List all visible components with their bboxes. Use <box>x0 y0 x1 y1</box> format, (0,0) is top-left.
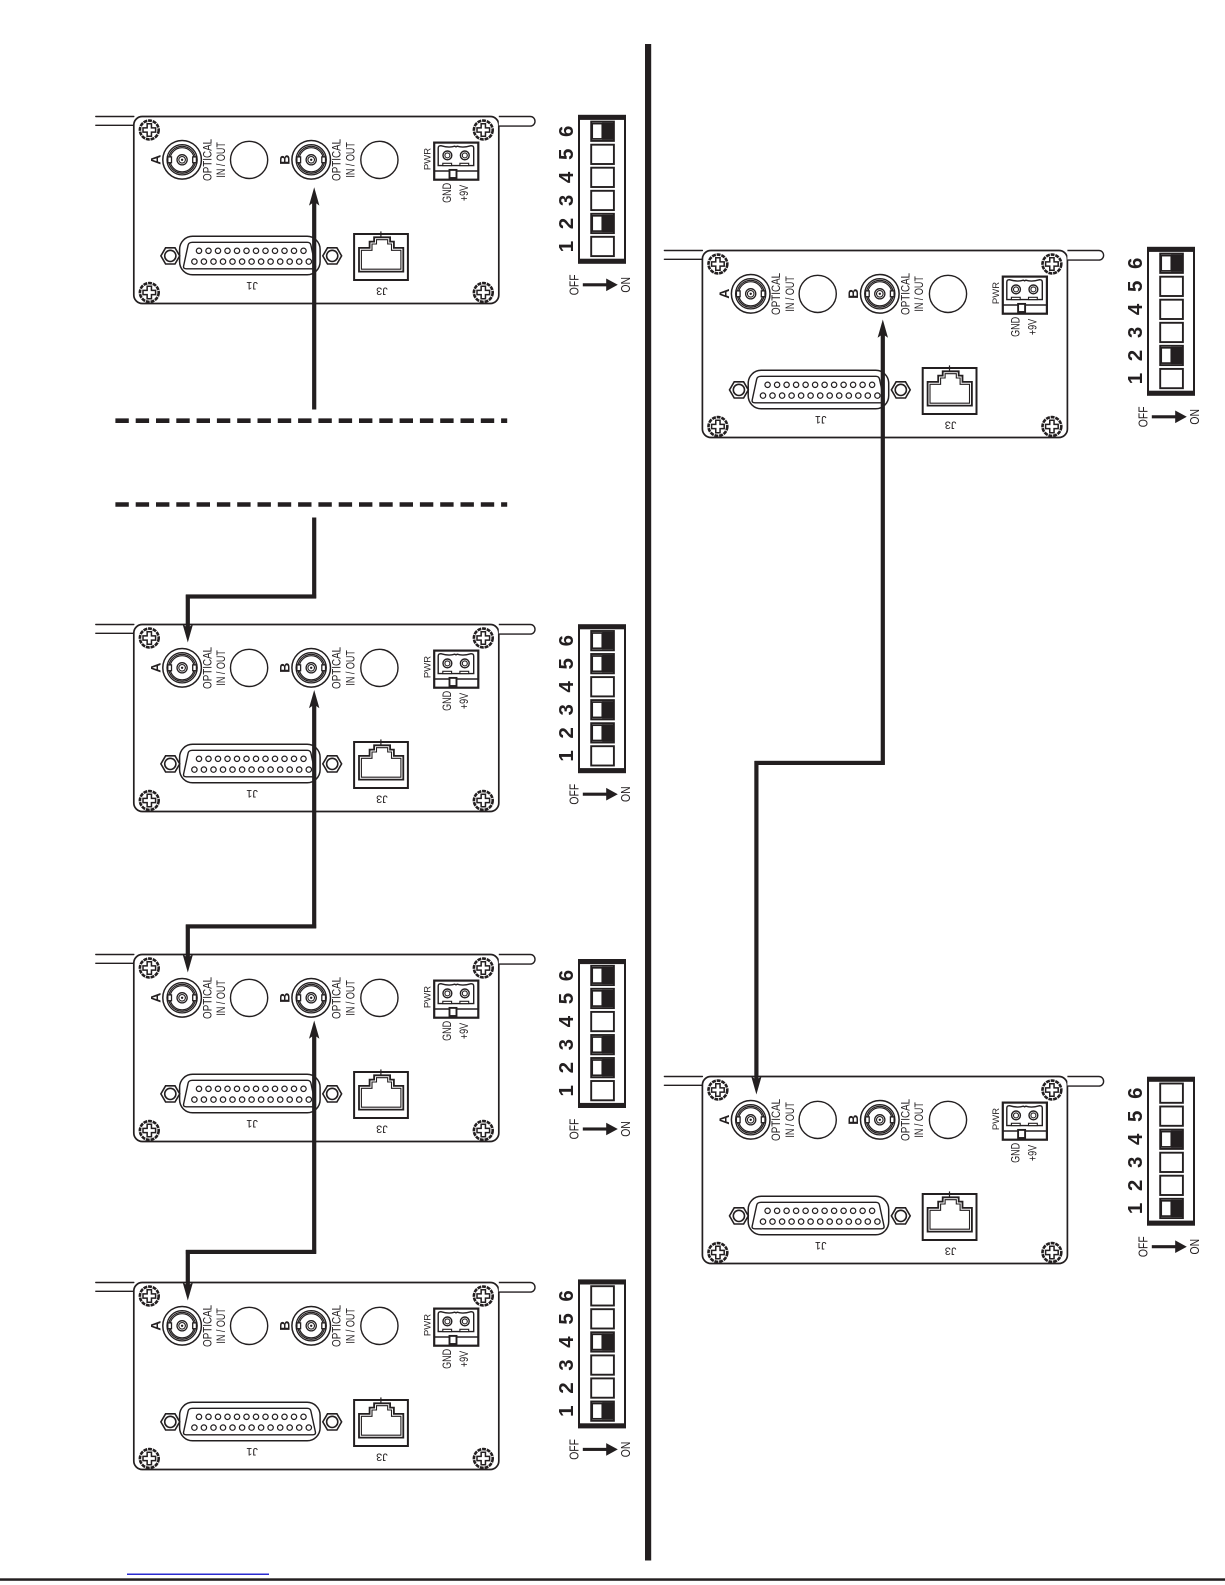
rear panel unit 6 faceplate <box>702 1077 1067 1264</box>
unit 1 DIP switch label 1 <box>555 241 578 252</box>
rear panel unit 1 faceplate <box>134 117 499 304</box>
rear panel unit 2 faceplate <box>134 625 499 812</box>
unit 4 top-right panel screw <box>474 1287 493 1306</box>
svg-text:IN / OUT: IN / OUT <box>784 1102 798 1138</box>
svg-text:J1: J1 <box>246 787 258 799</box>
svg-text:1: 1 <box>555 241 578 252</box>
unit 5 J1 left hex nut <box>730 382 749 398</box>
unit 1 OFF-to-ON arrow <box>583 279 618 292</box>
svg-text:6: 6 <box>555 970 578 981</box>
svg-text:1: 1 <box>555 1405 578 1416</box>
svg-text:2: 2 <box>1124 1180 1147 1191</box>
svg-text:OPTICAL: OPTICAL <box>770 273 783 315</box>
unit 3 DIP label ON <box>619 1121 633 1137</box>
unit 6 blank hole left <box>799 1101 836 1138</box>
svg-text:4: 4 <box>1124 1133 1147 1145</box>
svg-text:5: 5 <box>555 658 578 669</box>
unit 1 bottom-left panel screw <box>140 283 159 302</box>
unit 2 DB25 connector J1 <box>180 744 321 783</box>
cable unit6-A to unit5-B arrowhead into B <box>878 320 888 338</box>
unit 4 DIP switch block body <box>578 1280 626 1428</box>
unit 6 DIP switch label 1 <box>1124 1203 1147 1214</box>
unit 4 connector A label OPTICAL IN / OUT <box>202 1305 229 1347</box>
cable unit2-A to unit1-B arrowhead into A <box>183 624 193 642</box>
svg-text:B: B <box>277 1321 293 1331</box>
unit 3 DIP switch label 3 <box>555 1039 578 1050</box>
svg-text:J3: J3 <box>376 1450 388 1462</box>
unit 5 DIP label ON <box>1188 409 1202 425</box>
unit 3 label J1 <box>246 1117 258 1129</box>
unit 5 label J1 <box>815 413 827 425</box>
unit 2 label J1 <box>246 787 258 799</box>
unit 5 label B <box>845 289 861 299</box>
unit 4 DIP switch 3 (OFF) <box>591 1355 614 1374</box>
unit 3 DIP switch 1 (OFF) <box>591 1081 614 1100</box>
unit 2 DIP switch label 3 <box>555 704 578 715</box>
unit 5 BNC connector B (OPTICAL IN/OUT) <box>861 275 900 314</box>
svg-text:1: 1 <box>1124 1203 1147 1214</box>
unit 3 DIP switch label 5 <box>555 993 578 1004</box>
unit 5 OFF-to-ON arrow <box>1152 411 1187 424</box>
unit 5 DIP switch 1 (OFF) <box>1160 369 1183 388</box>
unit 6 bottom-left panel screw <box>709 1243 728 1262</box>
unit 5 left mounting flange <box>664 251 702 260</box>
unit 4 top-left panel screw <box>140 1287 159 1306</box>
svg-text:+9V: +9V <box>1027 1144 1041 1161</box>
unit 2 DIP switch 2 (ON) <box>591 723 614 742</box>
unit 2 right mounting flange <box>499 625 535 635</box>
unit 1 connector B label OPTICAL IN / OUT <box>331 139 358 181</box>
unit 2 BNC connector A (OPTICAL IN/OUT) <box>163 649 202 688</box>
unit 2 DIP switch 1 (OFF) <box>591 746 614 765</box>
svg-text:J1: J1 <box>246 1117 258 1129</box>
unit 4 right mounting flange <box>499 1283 535 1293</box>
svg-text:5: 5 <box>1124 281 1147 292</box>
unit 3 DB25 connector J1 <box>180 1074 321 1113</box>
cable continuation dashed break line lower <box>115 502 507 507</box>
unit 2 DIP switch label 2 <box>555 727 578 738</box>
unit 2 DIP switch 3 (ON) <box>591 700 614 719</box>
unit 6 DIP switch label 3 <box>1124 1157 1147 1168</box>
unit 4 DIP switch label 6 <box>555 1290 578 1301</box>
unit 4 DIP switch 4 (ON) <box>591 1332 614 1351</box>
unit 5 blank hole left <box>799 275 836 312</box>
unit 5 PWR power connector <box>1003 277 1047 314</box>
rear panel unit 4 faceplate <box>134 1283 499 1470</box>
unit 3 label A <box>148 993 164 1003</box>
unit 3 BNC connector A (OPTICAL IN/OUT) <box>163 979 202 1018</box>
svg-text:2: 2 <box>555 1382 578 1393</box>
unit 4 label PWR <box>423 1314 434 1336</box>
unit 5 right mounting flange <box>1067 251 1103 261</box>
unit 1 bottom-right panel screw <box>474 283 493 302</box>
svg-text:3: 3 <box>1124 1157 1147 1168</box>
unit 5 DIP label OFF <box>1137 406 1151 427</box>
unit 2 DIP switch block body <box>578 625 626 773</box>
svg-text:4: 4 <box>555 171 578 183</box>
svg-text:PWR: PWR <box>423 1314 434 1336</box>
unit 6 DB25 connector J1 <box>748 1196 889 1235</box>
cable unit2-A to unit1-B upper vertical segment <box>312 201 316 409</box>
unit 2 DIP switch 5 (ON) <box>591 654 614 673</box>
unit 6 DIP switch block body <box>1147 1077 1195 1225</box>
svg-text:OPTICAL: OPTICAL <box>331 977 344 1019</box>
svg-text:OPTICAL: OPTICAL <box>331 1305 344 1347</box>
unit 2 RJ45 jack J3 <box>354 739 408 788</box>
svg-text:5: 5 <box>555 993 578 1004</box>
unit 5 label PWR <box>991 282 1002 304</box>
unit 6 blank hole right <box>929 1101 966 1138</box>
unit 1 label A <box>148 155 164 165</box>
cable unit3-A to unit2-B vertical segment <box>312 704 316 928</box>
svg-text:J1: J1 <box>246 1445 258 1457</box>
unit 3 J1 right hex nut <box>323 1086 342 1102</box>
unit 6 DIP switch label 6 <box>1124 1087 1147 1098</box>
unit 6 BNC connector A (OPTICAL IN/OUT) <box>731 1101 770 1140</box>
unit 5 BNC connector A (OPTICAL IN/OUT) <box>731 275 770 314</box>
unit 2 DIP switch label 6 <box>555 635 578 646</box>
svg-text:6: 6 <box>1124 258 1147 269</box>
unit 3 connector B label OPTICAL IN / OUT <box>331 977 358 1019</box>
unit 2 left mounting flange <box>96 625 134 634</box>
unit 4 DIP switch label 5 <box>555 1313 578 1324</box>
unit 3 blank hole right <box>361 979 398 1016</box>
svg-text:3: 3 <box>1124 327 1147 338</box>
cable unit4-A to unit3-B lower vertical segment <box>186 1250 190 1287</box>
svg-text:2: 2 <box>555 218 578 229</box>
unit 3 DIP switch 5 (ON) <box>591 989 614 1008</box>
unit 3 top-left panel screw <box>140 959 159 978</box>
svg-text:OPTICAL: OPTICAL <box>202 1305 215 1347</box>
unit 4 blank hole right <box>361 1307 398 1344</box>
unit 5 bottom-left panel screw <box>709 417 728 436</box>
unit 3 DIP switch 4 (OFF) <box>591 1012 614 1031</box>
svg-text:J1: J1 <box>815 1239 827 1251</box>
svg-text:B: B <box>277 663 293 673</box>
unit 1 DIP switch block body <box>578 115 626 263</box>
unit 6 DIP switch label 4 <box>1124 1133 1147 1145</box>
unit 2 PWR power connector <box>434 651 478 688</box>
svg-text:ON: ON <box>619 786 633 802</box>
svg-text:5: 5 <box>555 149 578 160</box>
unit 3 DIP switch 2 (ON) <box>591 1058 614 1077</box>
svg-text:4: 4 <box>555 1336 578 1348</box>
unit 4 DIP label ON <box>619 1442 633 1458</box>
unit 2 DIP switch 4 (OFF) <box>591 677 614 696</box>
svg-text:A: A <box>148 993 164 1003</box>
unit 1 DIP switch 6 (ON) <box>591 122 614 141</box>
unit 4 label A <box>148 1321 164 1331</box>
unit 4 DIP label OFF <box>568 1439 582 1460</box>
svg-text:OPTICAL: OPTICAL <box>331 139 344 181</box>
unit 6 BNC connector B (OPTICAL IN/OUT) <box>861 1101 900 1140</box>
unit 3 label PWR <box>423 986 434 1008</box>
unit 5 DIP switch label 2 <box>1124 350 1147 361</box>
unit 2 label J3 <box>376 792 388 804</box>
svg-text:OPTICAL: OPTICAL <box>770 1099 783 1141</box>
svg-text:ON: ON <box>1188 409 1202 425</box>
unit 5 label J3 <box>945 418 957 430</box>
unit 5 label A <box>716 289 732 299</box>
unit 4 BNC connector A (OPTICAL IN/OUT) <box>163 1307 202 1346</box>
unit 2 label +9V <box>458 692 472 709</box>
unit 2 blank hole left <box>231 649 268 686</box>
svg-text:GND: GND <box>441 183 455 203</box>
unit 6 connector B label OPTICAL IN / OUT <box>899 1099 926 1141</box>
unit 5 DIP switch label 4 <box>1124 303 1147 315</box>
svg-text:IN / OUT: IN / OUT <box>913 276 927 312</box>
unit 4 label J3 <box>376 1450 388 1462</box>
unit 3 DIP switch label 1 <box>555 1085 578 1096</box>
svg-text:2: 2 <box>555 1062 578 1073</box>
svg-text:ON: ON <box>1188 1239 1202 1255</box>
unit 4 PWR power connector <box>434 1309 478 1346</box>
svg-text:PWR: PWR <box>991 1108 1002 1130</box>
unit 4 DIP switch 1 (ON) <box>591 1402 614 1421</box>
svg-text:OFF: OFF <box>568 784 582 805</box>
svg-text:OFF: OFF <box>1137 406 1151 427</box>
unit 1 J1 right hex nut <box>323 248 342 264</box>
unit 6 J1 right hex nut <box>891 1208 910 1224</box>
unit 6 DIP switch 6 (OFF) <box>1160 1084 1183 1103</box>
unit 2 top-right panel screw <box>474 629 493 648</box>
unit 3 DIP switch block body <box>578 960 626 1108</box>
unit 5 label +9V <box>1027 318 1041 335</box>
rear panel unit 5 faceplate <box>702 251 1067 438</box>
cable continuation dashed break line upper <box>115 418 507 423</box>
unit 3 bottom-left panel screw <box>140 1121 159 1140</box>
unit 1 DB25 connector J1 <box>180 236 321 274</box>
unit 5 bottom-right panel screw <box>1043 417 1062 436</box>
unit 6 OFF-to-ON arrow <box>1152 1240 1187 1253</box>
unit 2 BNC connector B (OPTICAL IN/OUT) <box>292 649 331 688</box>
unit 2 DIP label ON <box>619 786 633 802</box>
svg-text:B: B <box>277 993 293 1003</box>
unit 5 label GND <box>1009 317 1023 337</box>
unit 2 DIP switch label 5 <box>555 658 578 669</box>
svg-text:A: A <box>716 1115 732 1125</box>
unit 3 left mounting flange <box>96 955 134 964</box>
svg-text:4: 4 <box>555 1015 578 1027</box>
unit 4 DIP switch label 2 <box>555 1382 578 1393</box>
svg-text:IN / OUT: IN / OUT <box>344 980 358 1016</box>
unit 2 bottom-right panel screw <box>474 791 493 810</box>
cable unit3-A to unit2-B arrowhead into A <box>183 954 193 972</box>
unit 1 left mounting flange <box>96 117 134 126</box>
unit 5 DIP switch 4 (OFF) <box>1160 300 1183 319</box>
unit 4 DIP switch label 4 <box>555 1336 578 1348</box>
svg-text:PWR: PWR <box>423 656 434 678</box>
unit 1 top-left panel screw <box>140 121 159 140</box>
unit 2 top-left panel screw <box>140 629 159 648</box>
svg-text:IN / OUT: IN / OUT <box>215 650 229 686</box>
unit 6 DIP switch 1 (ON) <box>1160 1199 1183 1218</box>
svg-text:6: 6 <box>555 1290 578 1301</box>
svg-text:2: 2 <box>1124 350 1147 361</box>
unit 4 left mounting flange <box>96 1283 134 1292</box>
unit 6 DIP label OFF <box>1137 1236 1151 1257</box>
unit 6 top-right panel screw <box>1043 1081 1062 1100</box>
unit 3 bottom-right panel screw <box>474 1121 493 1140</box>
unit 5 DIP switch label 1 <box>1124 373 1147 384</box>
svg-text:B: B <box>845 289 861 299</box>
svg-text:OPTICAL: OPTICAL <box>899 273 912 315</box>
unit 5 DIP switch 6 (ON) <box>1160 254 1183 273</box>
unit 2 blank hole right <box>361 649 398 686</box>
svg-text:J1: J1 <box>815 413 827 425</box>
unit 6 DIP switch label 2 <box>1124 1180 1147 1191</box>
unit 1 DIP switch label 3 <box>555 195 578 206</box>
unit 1 DIP label OFF <box>568 274 582 295</box>
svg-text:OPTICAL: OPTICAL <box>899 1099 912 1141</box>
svg-text:IN / OUT: IN / OUT <box>913 1102 927 1138</box>
unit 3 DIP switch 3 (ON) <box>591 1035 614 1054</box>
svg-text:OPTICAL: OPTICAL <box>202 977 215 1019</box>
svg-text:IN / OUT: IN / OUT <box>344 142 358 178</box>
svg-text:6: 6 <box>555 126 578 137</box>
unit 6 label J3 <box>945 1244 957 1256</box>
unit 4 DIP switch 2 (OFF) <box>591 1378 614 1397</box>
svg-text:3: 3 <box>555 1039 578 1050</box>
unit 4 RJ45 jack J3 <box>354 1397 408 1446</box>
unit 3 OFF-to-ON arrow <box>583 1123 618 1136</box>
svg-text:GND: GND <box>1009 317 1023 337</box>
unit 5 DIP switch label 3 <box>1124 327 1147 338</box>
unit 3 DIP switch label 2 <box>555 1062 578 1073</box>
svg-text:IN / OUT: IN / OUT <box>344 650 358 686</box>
svg-text:PWR: PWR <box>423 986 434 1008</box>
svg-text:IN / OUT: IN / OUT <box>784 276 798 312</box>
svg-text:+9V: +9V <box>458 1350 472 1367</box>
unit 1 blank hole left <box>231 141 268 178</box>
unit 1 DIP switch label 5 <box>555 149 578 160</box>
svg-text:IN / OUT: IN / OUT <box>344 1308 358 1344</box>
unit 4 DIP switch 6 (OFF) <box>591 1286 614 1305</box>
unit 4 DIP switch 5 (OFF) <box>591 1309 614 1328</box>
unit 1 label J1 <box>246 279 258 291</box>
unit 1 top-right panel screw <box>474 121 493 140</box>
svg-text:OPTICAL: OPTICAL <box>202 139 215 181</box>
unit 4 DB25 connector J1 <box>180 1402 321 1441</box>
unit 4 bottom-right panel screw <box>474 1449 493 1468</box>
unit 6 label +9V <box>1027 1144 1041 1161</box>
svg-text:1: 1 <box>555 750 578 761</box>
cable unit2-A to unit1-B lower vertical segment <box>186 595 190 629</box>
unit 2 bottom-left panel screw <box>140 791 159 810</box>
unit 1 BNC connector A (OPTICAL IN/OUT) <box>163 141 202 180</box>
unit 5 top-right panel screw <box>1043 255 1062 274</box>
svg-text:PWR: PWR <box>991 282 1002 304</box>
unit 1 right mounting flange <box>499 117 535 127</box>
unit 1 label B <box>277 155 293 165</box>
svg-text:4: 4 <box>555 681 578 693</box>
svg-text:4: 4 <box>1124 303 1147 315</box>
unit 3 label +9V <box>458 1022 472 1039</box>
unit 5 DB25 connector J1 <box>748 370 889 409</box>
unit 2 DIP switch label 1 <box>555 750 578 761</box>
svg-text:J3: J3 <box>945 1244 957 1256</box>
svg-text:2: 2 <box>555 727 578 738</box>
unit 6 RJ45 jack J3 <box>923 1191 977 1240</box>
unit 3 label J3 <box>376 1122 388 1134</box>
svg-text:IN / OUT: IN / OUT <box>215 980 229 1016</box>
svg-text:+9V: +9V <box>1027 318 1041 335</box>
unit 1 DIP switch 3 (OFF) <box>591 191 614 210</box>
unit 5 blank hole right <box>929 275 966 312</box>
unit 6 PWR power connector <box>1003 1103 1047 1140</box>
unit 2 DIP label OFF <box>568 784 582 805</box>
unit 2 connector B label OPTICAL IN / OUT <box>331 647 358 689</box>
cable unit3-A to unit2-B lower vertical segment <box>186 925 190 959</box>
svg-text:GND: GND <box>1009 1143 1023 1163</box>
svg-text:5: 5 <box>555 1313 578 1324</box>
unit 1 label +9V <box>458 184 472 201</box>
svg-text:IN / OUT: IN / OUT <box>215 1308 229 1344</box>
cable unit2-A to unit1-B arrowhead into B <box>309 187 319 205</box>
unit 3 BNC connector B (OPTICAL IN/OUT) <box>292 979 331 1018</box>
unit 3 blank hole left <box>231 979 268 1016</box>
unit 6 bottom-right panel screw <box>1043 1243 1062 1262</box>
unit 5 DIP switch label 6 <box>1124 258 1147 269</box>
svg-text:GND: GND <box>441 1021 455 1041</box>
cable unit2-A to unit1-B horizontal segment <box>186 594 316 598</box>
cable unit4-A to unit3-B arrowhead into B <box>309 1021 319 1039</box>
svg-text:J3: J3 <box>376 1122 388 1134</box>
unit 6 DIP label ON <box>1188 1239 1202 1255</box>
unit 3 connector A label OPTICAL IN / OUT <box>202 977 229 1019</box>
cable unit2-A to unit1-B middle vertical segment <box>312 518 316 599</box>
unit 1 J1 left hex nut <box>161 248 180 264</box>
unit 2 label PWR <box>423 656 434 678</box>
unit 5 J1 right hex nut <box>891 382 910 398</box>
cable unit4-A to unit3-B vertical segment <box>312 1035 316 1254</box>
unit 3 DIP switch label 4 <box>555 1015 578 1027</box>
page footer rule <box>0 1578 1225 1581</box>
unit 6 label PWR <box>991 1108 1002 1130</box>
svg-text:1: 1 <box>1124 373 1147 384</box>
cable unit3-A to unit2-B arrowhead into B <box>309 690 319 708</box>
svg-text:OFF: OFF <box>568 1439 582 1460</box>
unit 6 DIP switch 2 (OFF) <box>1160 1176 1183 1195</box>
unit 2 DIP switch label 4 <box>555 681 578 693</box>
unit 1 PWR power connector <box>434 143 478 180</box>
unit 6 DIP switch 5 (OFF) <box>1160 1107 1183 1126</box>
unit 4 label +9V <box>458 1350 472 1367</box>
svg-text:ON: ON <box>619 1442 633 1458</box>
unit 1 DIP label ON <box>619 277 633 293</box>
svg-text:J1: J1 <box>246 279 258 291</box>
svg-text:+9V: +9V <box>458 184 472 201</box>
unit 6 connector A label OPTICAL IN / OUT <box>770 1099 797 1141</box>
unit 5 DIP switch 2 (ON) <box>1160 346 1183 365</box>
svg-text:ON: ON <box>619 277 633 293</box>
unit 2 OFF-to-ON arrow <box>583 788 618 801</box>
svg-text:1: 1 <box>555 1085 578 1096</box>
unit 2 label B <box>277 663 293 673</box>
svg-text:J3: J3 <box>376 284 388 296</box>
svg-text:A: A <box>148 1321 164 1331</box>
unit 3 label GND <box>441 1021 455 1041</box>
svg-text:A: A <box>148 663 164 673</box>
unit 5 DIP switch 5 (OFF) <box>1160 277 1183 296</box>
unit 4 label B <box>277 1321 293 1331</box>
unit 5 DIP switch block body <box>1147 247 1195 395</box>
unit 2 J1 right hex nut <box>323 756 342 772</box>
unit 5 connector B label OPTICAL IN / OUT <box>899 273 926 315</box>
unit 4 DIP switch label 3 <box>555 1359 578 1370</box>
unit 1 connector A label OPTICAL IN / OUT <box>202 139 229 181</box>
unit 1 blank hole right <box>361 141 398 178</box>
